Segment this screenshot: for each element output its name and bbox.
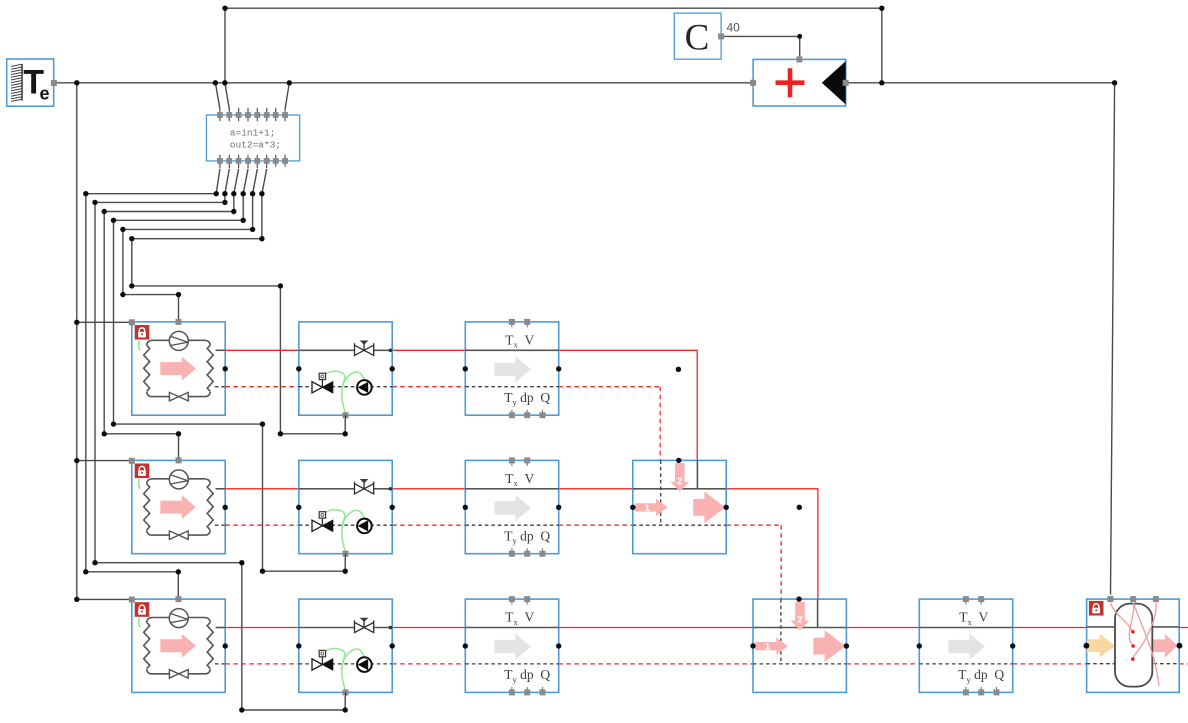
wire: slant into expression in1 bbox=[215, 83, 220, 109]
valve/pump unit V1 bbox=[296, 322, 395, 420]
outdoor temperature source Te bbox=[7, 59, 57, 106]
wire: constant C to adder top bbox=[724, 36, 800, 56]
svg-text:a=in1+1;: a=in1+1; bbox=[230, 127, 276, 138]
wire: slant into expression in8 bbox=[285, 83, 289, 109]
wire: expression out4 staircase to valve2 bottom bbox=[114, 169, 346, 571]
svg-text:40: 40 bbox=[727, 21, 741, 35]
red supply pipe row2 bbox=[225, 489, 818, 599]
mixer M1 bbox=[630, 458, 729, 554]
constant block C value 40 bbox=[674, 13, 740, 59]
adder block U1 (+) bbox=[750, 56, 849, 106]
valve/pump unit V2 bbox=[296, 460, 395, 558]
wire: expression out5 staircase to HP1 top bbox=[123, 169, 257, 320]
wire: Te vertical bus bbox=[77, 83, 129, 600]
wire: expression out6 staircase to valve1 bottom bbox=[132, 169, 345, 434]
svg-text:out2=a*3;: out2=a*3; bbox=[230, 140, 281, 151]
svg-text:e: e bbox=[40, 84, 50, 104]
wire: Te output bus y=82.8 bbox=[55, 82, 754, 84]
svg-text:C: C bbox=[685, 18, 710, 59]
red return pipe row1 (dashed) bbox=[225, 387, 660, 461]
wire: slant into expression in2 bbox=[225, 83, 229, 109]
heat pump HP1 bbox=[129, 319, 228, 415]
valve/pump unit V3 bbox=[296, 599, 395, 697]
red return pipe row3 (dashed) bbox=[225, 663, 1188, 665]
expression block a=in1+1; out2=a*3; bbox=[206, 108, 299, 168]
sensor block S2 bbox=[463, 457, 562, 556]
wire: expression out2 staircase to valve3 bottom bbox=[95, 169, 345, 710]
sensor block S3 bbox=[463, 596, 562, 695]
storage tank bbox=[1084, 596, 1183, 692]
wire: feedback top bus y=8 bbox=[225, 8, 882, 83]
heat pump HP2 bbox=[129, 457, 228, 553]
sensor block S4 bbox=[917, 596, 1016, 695]
red supply pipe row3 bbox=[225, 627, 1188, 629]
wire: expression out3 staircase to HP2 top bbox=[104, 169, 238, 458]
sensor block S1 bbox=[463, 319, 562, 418]
heat pump HP3 bbox=[129, 596, 228, 692]
red return pipe row2 (dashed) bbox=[225, 525, 781, 599]
red supply pipe row1 bbox=[225, 350, 697, 460]
wire: adder output to tank bbox=[846, 83, 1115, 595]
mixer M2 bbox=[750, 596, 849, 692]
wire: expression out1 staircase to HP3 top bbox=[86, 169, 220, 597]
